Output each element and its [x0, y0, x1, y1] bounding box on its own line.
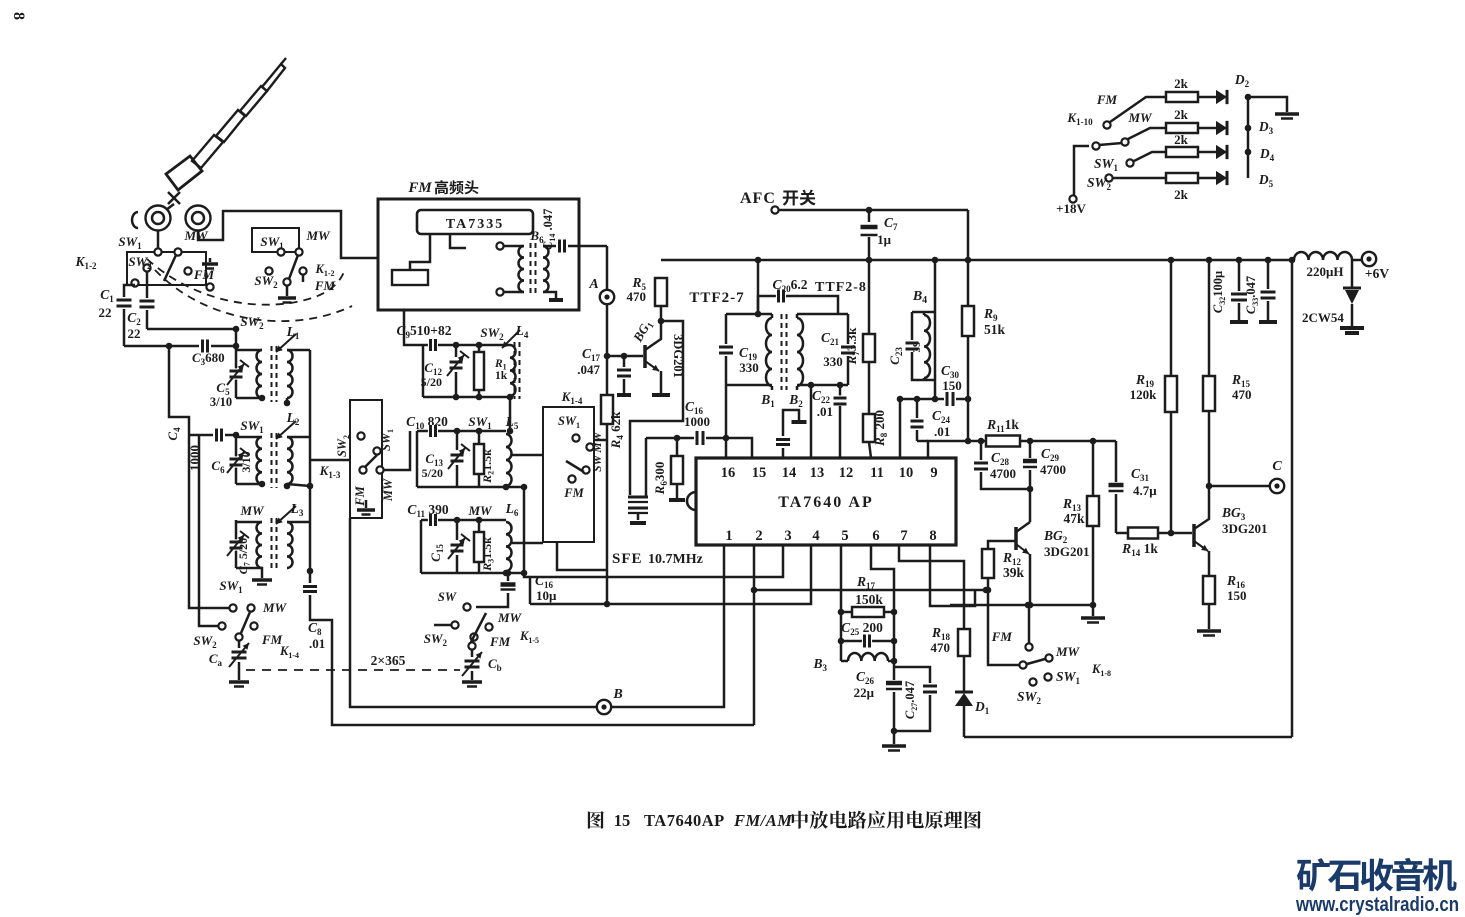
- resistor R17 150k: [841, 611, 894, 614]
- terminal A: [606, 246, 609, 290]
- capacitor C23 39: [911, 312, 914, 340]
- L1 tuning arrow: [276, 334, 296, 352]
- resistor 2k (SW1 row): [1166, 147, 1198, 157]
- L5 row top wire: [417, 430, 428, 433]
- wire MW contact to R: [1128, 128, 1166, 139]
- svg-text:150: 150: [1227, 588, 1247, 603]
- svg-text:39: 39: [911, 341, 923, 353]
- wire C24 bottom join: [917, 440, 928, 443]
- svg-text:22: 22: [128, 326, 141, 341]
- svg-text:MW: MW: [262, 600, 288, 615]
- wire FM block to L4 row: [404, 310, 423, 345]
- capacitor C29 4700: [1029, 441, 1032, 458]
- capacitor C8 .01: [303, 584, 317, 594]
- svg-text:10μ: 10μ: [536, 588, 557, 603]
- svg-text:C206.2: C206.2: [773, 277, 808, 294]
- svg-text:150: 150: [942, 378, 962, 393]
- capacitor C32 100u: [1238, 260, 1241, 291]
- L1 bottom wire: [236, 397, 262, 400]
- svg-text:2k: 2k: [1174, 187, 1189, 202]
- resistor R4 62k: [601, 395, 613, 424]
- mech coupling dashed curve 1: [147, 259, 344, 305]
- svg-text:R31.5k: R31.5k: [480, 537, 496, 572]
- svg-text:FM: FM: [1096, 92, 1118, 107]
- svg-text:5/20: 5/20: [422, 466, 443, 480]
- svg-text:.047: .047: [577, 362, 600, 377]
- svg-text:R6300: R6300: [652, 462, 669, 496]
- resistor R15 470: [1208, 260, 1211, 376]
- R17 bus wire: [754, 589, 987, 592]
- svg-text:R8 200: R8 200: [872, 410, 889, 447]
- svg-text:120k: 120k: [1130, 387, 1158, 402]
- svg-text:470: 470: [931, 640, 951, 655]
- wire to +6V terminal: [1352, 259, 1361, 262]
- L1 secondary winding: [287, 350, 293, 398]
- ground (K1-3): [365, 500, 368, 508]
- svg-text:C27.047: C27.047: [903, 681, 919, 719]
- coupling capacitor C20 6.2: [758, 296, 776, 314]
- trimmer C12 5/20: [455, 345, 458, 357]
- capacitor C7 1u: [868, 210, 871, 222]
- svg-text:MW: MW: [467, 503, 493, 518]
- B4 tank top wire: [934, 260, 937, 399]
- capacitor C3 680: [200, 340, 210, 353]
- diode D3: [1198, 127, 1216, 130]
- switch contacts (box): [572, 434, 579, 441]
- svg-text:C14 .047: C14 .047: [541, 209, 557, 250]
- L4-L5 link: [509, 396, 512, 431]
- svg-text:R4 62k: R4 62k: [608, 411, 625, 449]
- L1 core: [271, 346, 273, 402]
- transformer B1 winding: [766, 318, 772, 386]
- AFC terminal: [771, 206, 778, 213]
- wire SW2 contact to R: [1113, 177, 1166, 180]
- ground (diode matrix): [1275, 112, 1299, 116]
- svg-text:FM: FM: [991, 629, 1013, 644]
- resistor R18 470: [958, 629, 970, 656]
- svg-text:+6V: +6V: [1365, 266, 1389, 281]
- L4 winding: [510, 345, 516, 396]
- transistor BG2 3DG201: [1029, 489, 1032, 522]
- switch K1-3 arm: [365, 455, 377, 467]
- svg-text:FM: FM: [407, 180, 432, 196]
- caption figure 15: [588, 811, 604, 829]
- ground (K1-2 right): [286, 286, 289, 296]
- wire C4 1000 line: [189, 434, 213, 437]
- L3 secondary winding: [287, 522, 293, 568]
- wire B to pin1: [611, 545, 724, 707]
- svg-text:C10 820: C10 820: [406, 414, 448, 431]
- svg-text:C33.047: C33.047: [1244, 276, 1260, 314]
- capacitor C33 .047: [1267, 260, 1270, 289]
- svg-text:1μ: 1μ: [877, 232, 892, 247]
- switch K1-8 arm: [1027, 659, 1045, 664]
- L3 core: [271, 518, 273, 572]
- L3 primary winding: [236, 521, 262, 524]
- detector right node wire: [893, 612, 896, 744]
- L4 cell left wire: [422, 345, 425, 397]
- resistor R13 47k: [1092, 441, 1095, 496]
- svg-text:FM: FM: [563, 486, 584, 500]
- wire FM contact up to ground line: [1028, 605, 1031, 644]
- ground (BG2): [1092, 605, 1095, 616]
- wire K1-3 down to B line: [350, 518, 597, 707]
- trimmer C6 3/10: [230, 456, 243, 467]
- diode D2: [1198, 96, 1216, 99]
- svg-text:220μH: 220μH: [1307, 264, 1344, 279]
- L4 arrow: [502, 330, 520, 348]
- wire box bottom to R4 column: [557, 542, 607, 570]
- ground (gang 1): [229, 680, 249, 684]
- wire TTF2-7 bottom to pin16: [725, 385, 728, 458]
- resistor R7 3.3k: [868, 260, 871, 334]
- telescopic antenna: [166, 58, 286, 190]
- resistor R6 300: [676, 438, 679, 456]
- svg-text:10: 10: [899, 465, 914, 481]
- switch K1-5 contacts: [463, 603, 470, 610]
- svg-text:MW: MW: [183, 228, 209, 243]
- wire to ground: [1248, 97, 1287, 112]
- right edge vertical wire: [1291, 260, 1294, 737]
- ground (FM left): [209, 258, 212, 262]
- wire ground line left: [950, 604, 968, 607]
- resistor R1 1k: [478, 345, 481, 352]
- trimmer C7 5/20: [230, 539, 243, 550]
- svg-text:SW MW: SW MW: [592, 431, 604, 472]
- resistor R9 51k: [967, 260, 970, 306]
- svg-text:C: C: [1272, 459, 1282, 474]
- wire BG1 collector to SFE: [630, 321, 683, 495]
- transformer B6 primary: [519, 246, 525, 292]
- inductor 220uH: [1294, 252, 1352, 260]
- transformer B2 winding: [797, 318, 803, 386]
- switch K1-2 left box: [127, 252, 206, 285]
- svg-text:3DG201: 3DG201: [1044, 544, 1090, 559]
- variable capacitor CB (gang 2): [471, 650, 474, 657]
- L2 secondary winding: [287, 437, 293, 484]
- AGC wire to C31: [1115, 441, 1118, 482]
- svg-text:MW: MW: [239, 503, 265, 518]
- BG2 base wire to R12: [988, 541, 1016, 549]
- svg-text:5: 5: [841, 528, 848, 544]
- svg-text:+18V: +18V: [1056, 201, 1086, 216]
- capacitor C16 1000: [694, 431, 705, 445]
- svg-text:FM: FM: [489, 634, 511, 649]
- wire SW1 contact to R: [1134, 152, 1166, 161]
- svg-text:TTF2-7: TTF2-7: [689, 290, 744, 306]
- capacitor C17 .047: [621, 353, 628, 360]
- wire left coil down: [157, 231, 160, 252]
- wire FM contact to R: [1110, 97, 1166, 122]
- svg-text:330: 330: [823, 354, 843, 369]
- ground (detector): [882, 744, 906, 748]
- svg-text:FM: FM: [314, 278, 336, 293]
- svg-text:22μ: 22μ: [854, 685, 875, 700]
- svg-text:7: 7: [900, 528, 907, 544]
- TTF2-7 cell left wire with C19: [725, 314, 728, 344]
- svg-text:www.crystalradio.cn: www.crystalradio.cn: [1295, 893, 1459, 916]
- resistor 2k (MW row): [1166, 123, 1198, 133]
- L6 cell left wire: [420, 520, 423, 573]
- svg-text:4.7μ: 4.7μ: [1133, 483, 1157, 498]
- hook mark: [132, 212, 138, 228]
- svg-text:TA7640AP: TA7640AP: [644, 811, 725, 830]
- wire pin5 down to R17 left node: [840, 545, 843, 661]
- svg-text:330: 330: [739, 360, 759, 375]
- capacitor C31 4.7u: [1109, 482, 1124, 494]
- switch K1-2 left arm: [164, 255, 176, 281]
- trimmer C5 3/10: [230, 368, 243, 379]
- L1 tank cell: [235, 329, 238, 398]
- resistor R5 470: [655, 278, 667, 306]
- L2 tuning arrow: [276, 421, 296, 439]
- BG2 emitter ground wire: [968, 604, 1093, 607]
- switch K1-5 arm: [471, 613, 486, 642]
- capacitor on pin14 with terminus: [782, 448, 785, 458]
- svg-text:TA7640 AP: TA7640 AP: [778, 494, 873, 511]
- L2 bottom wire: [236, 483, 262, 486]
- B6 primary terminals: [496, 242, 503, 249]
- svg-text:15: 15: [614, 811, 631, 830]
- capacitor C30 150: [944, 392, 955, 406]
- terminal C: [1209, 485, 1269, 488]
- wire C2 to SW2 node: [147, 328, 236, 331]
- svg-text:39k: 39k: [1003, 565, 1025, 580]
- mech coupling dashed curve 2: [155, 270, 352, 321]
- svg-text:FM/AM: FM/AM: [733, 811, 793, 830]
- bottom bus wire: [964, 736, 1292, 739]
- svg-text:C32100μ: C32100μ: [1211, 271, 1227, 313]
- wire SFE to C16: [646, 437, 694, 440]
- svg-text:15: 15: [752, 465, 767, 481]
- capacitor C10: [428, 425, 438, 437]
- ferrite coil right: [186, 206, 211, 231]
- IC TA7335 box: [417, 210, 533, 234]
- svg-text:A: A: [588, 277, 598, 292]
- wire K1-3 right: [384, 431, 410, 470]
- wire pin6 down: [871, 545, 894, 612]
- resistor R14 1k: [1116, 532, 1128, 535]
- svg-text:AFC: AFC: [740, 190, 776, 207]
- ferrite coil left: [146, 206, 171, 231]
- wire to SW2 contact: [199, 435, 218, 626]
- switch arm (box): [566, 461, 584, 472]
- svg-text:R73.3k: R73.3k: [844, 327, 861, 365]
- svg-text:1: 1: [725, 528, 732, 544]
- FM tuner block outline: [378, 199, 579, 310]
- switch K1-2 right contacts: [277, 248, 284, 255]
- wire pole to R12 bus: [988, 590, 1019, 665]
- svg-text:4700: 4700: [990, 466, 1016, 481]
- transistor BG1 3DG201: [643, 345, 647, 368]
- svg-text:4700: 4700: [1040, 462, 1066, 477]
- resistor R11 1k: [986, 436, 1020, 447]
- svg-text:MW: MW: [497, 610, 523, 625]
- svg-text:470: 470: [1232, 387, 1252, 402]
- AFC wire: [779, 209, 968, 212]
- svg-text:.01: .01: [934, 424, 950, 439]
- capacitor C24 .01: [916, 399, 919, 418]
- resistor 2k (SW2 row): [1166, 173, 1198, 183]
- svg-text:2: 2: [755, 528, 762, 544]
- wire coils to FM block: [198, 211, 378, 258]
- L3 tank cell: [235, 520, 238, 568]
- svg-text:TTF2-8: TTF2-8: [815, 280, 867, 295]
- ground (BG3): [1197, 629, 1221, 633]
- resistor R3 1.5k: [478, 520, 481, 532]
- svg-text:C3680: C3680: [192, 350, 225, 367]
- resistor R16 150: [1203, 576, 1215, 604]
- capacitor C9: [428, 339, 438, 351]
- svg-text:MW: MW: [1055, 644, 1081, 659]
- diode D5: [1198, 177, 1216, 180]
- svg-text:.01: .01: [817, 404, 833, 419]
- terminal B: [597, 700, 611, 714]
- switch K1-4 contacts: [229, 604, 236, 611]
- resistor R2 1.5k: [478, 431, 481, 444]
- svg-text:10.7MHz: 10.7MHz: [648, 552, 703, 567]
- TTF2-8 cell top wire: [797, 313, 848, 316]
- wire C1 line with C3: [124, 345, 199, 348]
- svg-text:8: 8: [929, 528, 936, 544]
- L6 winding: [506, 522, 512, 571]
- svg-text:MW: MW: [381, 478, 395, 502]
- L2 core: [271, 433, 273, 488]
- transistor BG3 3DG201: [1192, 524, 1196, 547]
- wire box to BG1 base column: [594, 439, 607, 442]
- wire pin2 R17 bus: [753, 545, 756, 725]
- svg-text:12: 12: [839, 465, 854, 481]
- L6 tap wire: [512, 542, 543, 545]
- wire SW2 stub: [434, 624, 451, 627]
- svg-text:5/20: 5/20: [421, 375, 442, 389]
- svg-text:3/10: 3/10: [210, 395, 232, 409]
- svg-text:470: 470: [627, 289, 647, 304]
- L4 bottom wire: [423, 396, 510, 399]
- capacitor C28 4700: [980, 441, 983, 460]
- svg-text:51k: 51k: [984, 322, 1006, 337]
- TTF2-7 cell top wire: [726, 313, 772, 316]
- svg-text:16: 16: [721, 465, 736, 481]
- trimmer C13 5/20: [456, 431, 459, 450]
- wire pin7 to R18: [899, 545, 964, 629]
- switch K1-2 right arm: [289, 255, 298, 279]
- diode D4: [1198, 151, 1216, 154]
- wire pin3 to SFE line: [530, 545, 783, 604]
- zener diode 2CW54: [1351, 260, 1354, 288]
- resistor 2k (FM row): [1166, 92, 1198, 102]
- wire to MW contact: [169, 346, 229, 608]
- terminal +6V: [1362, 252, 1376, 266]
- L1 primary winding: [236, 349, 262, 352]
- svg-text:SW: SW: [438, 590, 457, 604]
- svg-text:2k: 2k: [1174, 132, 1189, 147]
- wire A to BG1 base: [607, 304, 643, 356]
- left block right-side vertical: [309, 350, 312, 583]
- capacitor C14 .047: [543, 245, 556, 248]
- TTF2-7 cell bottom wire: [726, 384, 772, 387]
- svg-text:C25 200: C25 200: [841, 620, 883, 637]
- resistor R8 200: [868, 362, 871, 414]
- IC TA7640AP body: [696, 458, 956, 545]
- L3 bottom wire: [236, 568, 262, 578]
- svg-text:3/10: 3/10: [239, 451, 253, 472]
- L2 primary winding: [236, 436, 262, 439]
- wire antenna to switch: [166, 204, 174, 210]
- L3 tuning arrow: [276, 506, 296, 524]
- wire right switch to FM block: [302, 275, 305, 282]
- svg-text:MW: MW: [1127, 110, 1153, 125]
- switch K1-8 contacts: [1025, 643, 1032, 650]
- svg-text:R14 1k: R14 1k: [1121, 541, 1158, 558]
- capacitor C4 1000: [214, 429, 224, 442]
- L2 tank cell: [235, 435, 238, 484]
- capacitor C11: [428, 514, 438, 526]
- svg-text:2k: 2k: [1174, 76, 1189, 91]
- L5 tap wire: [512, 454, 543, 457]
- svg-text:4: 4: [812, 528, 819, 544]
- ground (L3): [252, 578, 272, 582]
- AM detector wire: [900, 398, 944, 401]
- L4 core: [514, 342, 516, 399]
- dashed gang link 2x365: [246, 669, 460, 671]
- svg-text:1k: 1k: [495, 370, 508, 382]
- switch K1-3 contacts: [357, 432, 364, 439]
- svg-text:2CW54: 2CW54: [1302, 310, 1344, 325]
- capacitor C26 22u: [886, 680, 902, 692]
- svg-text:TA7335: TA7335: [446, 217, 504, 232]
- wire K1-3 to L2: [310, 459, 350, 462]
- L6 bottom wire: [421, 572, 524, 575]
- L5 cell left wire: [416, 431, 419, 487]
- L5-L6 right link: [523, 487, 526, 576]
- svg-text:14: 14: [782, 465, 797, 481]
- L5 winding: [506, 434, 512, 486]
- switch K1-4 box: [543, 407, 594, 542]
- capacitor C22 .01 on pin12: [839, 385, 842, 396]
- TTF2-8 cell right wire with C21: [847, 314, 850, 344]
- svg-text:9: 9: [930, 465, 937, 481]
- svg-text:2k: 2k: [1174, 107, 1189, 122]
- svg-text:13: 13: [810, 465, 825, 481]
- TTF2-8 cell bottom wire: [797, 384, 848, 387]
- svg-text:6: 6: [872, 528, 879, 544]
- svg-text:8: 8: [10, 12, 27, 20]
- svg-text:150k: 150k: [855, 592, 883, 607]
- L4 row top wire: [423, 344, 428, 347]
- wire pin10 up: [899, 399, 902, 458]
- svg-text:B: B: [612, 687, 622, 702]
- transformer B6 core: [530, 243, 532, 295]
- diode D1: [963, 656, 966, 691]
- svg-text:2×365: 2×365: [371, 653, 406, 668]
- antenna lead-in cross: [168, 192, 180, 204]
- power rail wire: [661, 259, 1294, 262]
- crystal inside FM block: [410, 234, 430, 270]
- switch K1-3 box: [350, 400, 382, 518]
- switch K1-2 right box: [252, 228, 299, 252]
- wire B2 bottom to pin13: [810, 385, 813, 458]
- AGC wire pin9: [928, 441, 986, 458]
- svg-text:3DG201: 3DG201: [1222, 521, 1268, 536]
- wire pin4 line: [530, 545, 811, 604]
- resistor R12 39k: [982, 549, 994, 578]
- L5 bottom wire: [417, 486, 524, 489]
- coil B3: [841, 660, 848, 663]
- svg-text:22: 22: [99, 305, 112, 320]
- svg-text:47k: 47k: [1063, 511, 1085, 526]
- svg-text:SFE: SFE: [612, 551, 643, 567]
